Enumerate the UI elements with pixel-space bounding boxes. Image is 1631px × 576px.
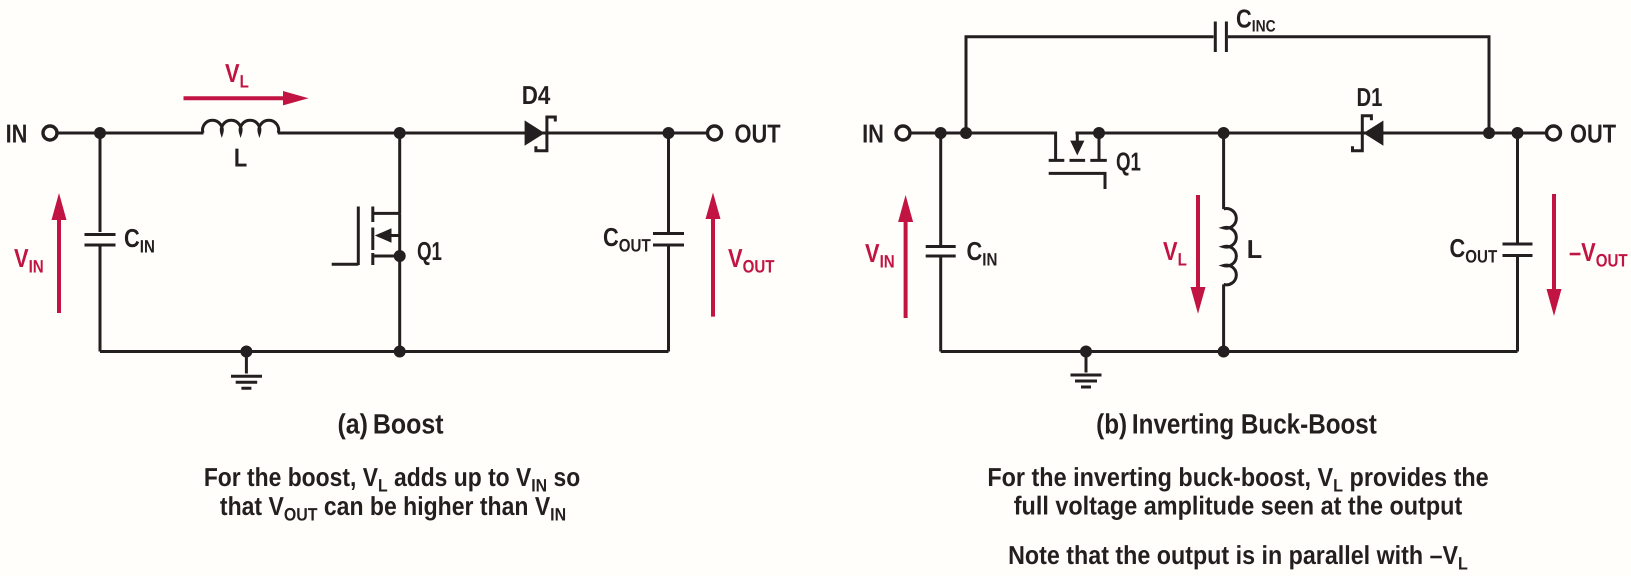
- capacitor C_OUT (a): [653, 133, 684, 352]
- junction: Q1 source dot (a): [394, 250, 406, 262]
- capacitor C_INC (b): [1215, 22, 1226, 53]
- svg-text:OUT: OUT: [735, 118, 781, 148]
- svg-text:IN: IN: [6, 119, 28, 149]
- red arrow V_IN (a): [52, 193, 67, 313]
- capacitor C_IN (a): [85, 133, 116, 352]
- diode D1 Schottky (b): [1353, 116, 1384, 151]
- junction: inductor node (b): [1218, 127, 1230, 139]
- junction: inductor rail node (b): [1218, 346, 1230, 358]
- red arrow V_L (a): [184, 91, 309, 105]
- wire: bottom rail (a): [100, 350, 669, 353]
- svg-text:L: L: [1247, 234, 1263, 264]
- svg-text:full voltage amplitude seen at: full voltage amplitude seen at the outpu…: [1014, 491, 1463, 521]
- wire: main rail left part (b): [911, 132, 1058, 135]
- junction: Q1 source dot (b): [1093, 127, 1105, 139]
- capacitor C_IN (b): [926, 133, 956, 352]
- junction: output node (a): [663, 127, 675, 139]
- svg-text:OUT: OUT: [1570, 118, 1616, 148]
- svg-text:(a) Boost: (a) Boost: [337, 409, 443, 440]
- terminal OUT (b): [1547, 126, 1561, 140]
- junction: ground node (b): [1080, 346, 1092, 358]
- terminal IN (a): [43, 126, 57, 140]
- wire: main top rail (a) from IN to OUT: [58, 132, 204, 135]
- svg-text:D1: D1: [1357, 82, 1383, 112]
- diode D4 Schottky (a): [525, 117, 556, 151]
- inductor L (b): [1224, 133, 1237, 352]
- wire: Q1 drain to top node (a): [398, 133, 401, 213]
- svg-text:Note that the output is in par: Note that the output is in parallel with…: [1008, 540, 1468, 574]
- transistor Q1 (a) NMOS: [332, 207, 400, 266]
- junction: drain node (a): [394, 127, 406, 139]
- red arrow V_L (b): [1191, 195, 1206, 314]
- junction: C_OUT node (b): [1512, 127, 1524, 139]
- junction: ground node (a): [240, 346, 252, 358]
- junction: C_INC branch node (b): [960, 127, 972, 139]
- svg-text:Q1: Q1: [417, 236, 442, 266]
- svg-text:IN: IN: [862, 118, 884, 148]
- wire: top branch right + riser down (b): [1228, 37, 1489, 133]
- junction: C_IN node (b): [935, 127, 947, 139]
- wire: bottom rail (b): [941, 350, 1518, 353]
- transistor Q1 (b) NMOS rotated: [1049, 132, 1107, 190]
- svg-text:Q1: Q1: [1116, 147, 1141, 177]
- ground symbol (b): [1071, 352, 1102, 388]
- terminal OUT (a): [708, 126, 722, 140]
- ground symbol (a): [231, 352, 262, 389]
- junction node A (a): input node: [94, 127, 106, 139]
- terminal IN (b): [896, 126, 910, 140]
- svg-text:D4: D4: [522, 80, 551, 110]
- inductor L (a): [203, 120, 279, 133]
- junction: Q1 source rail node (a): [394, 346, 406, 358]
- svg-text:that VOUT can be higher than V: that VOUT can be higher than VIN: [220, 491, 566, 525]
- wire: top branch left riser (b): [966, 37, 1214, 133]
- svg-text:(b) Inverting Buck-Boost: (b) Inverting Buck-Boost: [1096, 409, 1377, 440]
- wire: main rail right part (b): [1076, 132, 1547, 135]
- red arrow V_OUT (a): [706, 193, 721, 317]
- svg-text:L: L: [234, 143, 247, 173]
- capacitor C_OUT (b): [1503, 133, 1533, 352]
- red arrow -V_OUT (b): [1547, 194, 1562, 316]
- junction: C_INC right node (b): [1483, 127, 1495, 139]
- wire: Q1 source to bottom rail (a): [398, 256, 401, 352]
- red arrow V_IN (b): [898, 195, 913, 318]
